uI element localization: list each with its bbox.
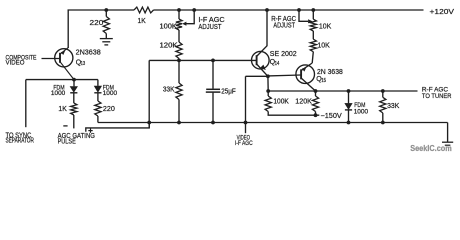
transistor Q13 2N3638 xyxy=(55,49,73,67)
resistor 33K xyxy=(176,83,182,100)
resistor 220 (top) xyxy=(103,17,109,34)
wire xyxy=(312,31,314,39)
wire 220 to bus xyxy=(97,116,99,123)
ground (bottom right) xyxy=(442,141,453,143)
potentiometer 10K (R-F AGC adjust) xyxy=(310,19,316,31)
transistor Q15 2N3638 xyxy=(296,65,315,84)
wire to Q15 base xyxy=(268,74,301,77)
Q15 emitter arrow (PNP) xyxy=(302,67,307,71)
junction bus/25uF xyxy=(211,121,215,125)
wire xyxy=(267,91,269,96)
wire xyxy=(97,80,99,86)
Q15 collector lead xyxy=(301,78,315,91)
junction base line/120K-33K xyxy=(177,59,181,63)
wire emitter node down to RF rail xyxy=(267,76,269,91)
wire xyxy=(73,93,75,103)
wire wiper to rail xyxy=(186,10,194,24)
wire xyxy=(315,91,317,96)
wire R-F AGC rail xyxy=(268,90,417,92)
junction RF rail/120K xyxy=(314,89,318,93)
wire to sync separator xyxy=(25,80,27,128)
wire xyxy=(178,10,180,19)
svg-text:I-F AGC: I-F AGC xyxy=(235,140,253,147)
resistor 1K (pulse) xyxy=(71,103,77,115)
diode D2 FDM 1000 xyxy=(94,86,101,92)
junction RF rail/100K xyxy=(266,89,270,93)
svg-text:120K: 120K xyxy=(295,99,312,106)
junction rail/220 xyxy=(104,8,108,12)
wire xyxy=(348,110,350,123)
wire xyxy=(312,10,314,19)
Q13 collector lead xyxy=(60,62,74,80)
junction bus/33K right xyxy=(381,121,385,125)
Q14 emitter lead xyxy=(257,64,268,76)
diode D1 FDM 1000 xyxy=(70,87,77,93)
wire xyxy=(348,91,350,103)
svg-text:SE 2002: SE 2002 xyxy=(270,51,297,58)
wire xyxy=(105,34,107,39)
svg-text:SEPARATOR: SEPARATOR xyxy=(6,138,34,145)
node plus terminal of gating pulse xyxy=(88,130,92,132)
svg-text:−150V: −150V xyxy=(321,113,343,120)
wire 1K to pulse minus xyxy=(73,115,75,128)
wire gating pulse + to bus xyxy=(86,123,149,132)
junction bus/33K xyxy=(177,121,181,125)
wire base network vertical xyxy=(148,60,150,128)
svg-text:14: 14 xyxy=(275,61,280,67)
junction bus/D3 xyxy=(347,121,351,125)
svg-text:1000: 1000 xyxy=(354,109,369,116)
junction RF rail/D3 xyxy=(347,89,351,93)
svg-text:100K: 100K xyxy=(273,99,289,106)
wire top rail left segment xyxy=(68,9,135,11)
wire to SE2002 base xyxy=(149,59,256,61)
junction collector/diode D1 xyxy=(72,78,76,82)
svg-text:1000: 1000 xyxy=(51,90,66,97)
wire wiper to rail xyxy=(299,10,308,21)
svg-text:TO TUNER: TO TUNER xyxy=(422,93,452,100)
wire Q14 collector to rail xyxy=(266,10,268,47)
Q14 collector lead xyxy=(257,46,267,57)
junction rail/wiper RF xyxy=(297,8,301,12)
resistor 100K xyxy=(265,96,271,112)
wire top rail right segment xyxy=(154,9,424,11)
wire xyxy=(73,80,75,87)
svg-text:SeekIC.com: SeekIC.com xyxy=(410,143,452,153)
diode D3 FDM 1000 xyxy=(345,103,352,109)
wire emitter node left xyxy=(246,75,268,77)
resistor 10K xyxy=(310,39,316,52)
Q13 emitter arrow (PNP) xyxy=(61,51,65,55)
wire cap to bus xyxy=(212,93,214,123)
wire to -150V xyxy=(268,112,319,116)
wire composite video to base of Q13 xyxy=(42,58,60,60)
svg-text:120K: 120K xyxy=(160,43,178,50)
svg-text:100K: 100K xyxy=(160,23,178,30)
node minus terminal xyxy=(63,125,67,127)
Q15 emitter lead up xyxy=(301,63,312,71)
svg-text:13: 13 xyxy=(81,61,86,67)
junction rail/wiper xyxy=(192,8,196,12)
svg-text:I-F AGC: I-F AGC xyxy=(198,17,224,24)
svg-text:1K: 1K xyxy=(138,18,147,25)
wire 10K to Q15 xyxy=(312,52,313,63)
junction base line/25uF xyxy=(211,59,215,63)
svg-text:220: 220 xyxy=(103,106,115,113)
resistor 120K right xyxy=(312,96,318,112)
junction RF rail/33K xyxy=(381,89,385,93)
wire xyxy=(178,59,180,84)
svg-text:ADJUST: ADJUST xyxy=(198,24,222,31)
wire xyxy=(382,91,384,97)
wire xyxy=(105,10,107,17)
wire bottom AGC bus xyxy=(98,122,448,124)
junction bus/base network xyxy=(147,121,151,125)
svg-text:10K: 10K xyxy=(319,23,332,30)
wire xyxy=(212,60,214,88)
junction bus/video IF AGC tap xyxy=(244,121,248,125)
resistor 120K xyxy=(176,42,182,59)
svg-text:ADJUST: ADJUST xyxy=(273,23,295,30)
wire bus to ground xyxy=(447,123,449,142)
resistor 1K (series in +120V rail) xyxy=(134,7,154,13)
svg-text:15: 15 xyxy=(321,78,326,84)
ground (below 220) xyxy=(100,38,113,40)
svg-text:33K: 33K xyxy=(163,86,175,93)
svg-text:10K: 10K xyxy=(317,43,330,50)
Q14 emitter arrow (NPN) xyxy=(260,65,266,71)
junction Q14 emitter node xyxy=(266,74,270,78)
wire video I-F AGC tap xyxy=(245,76,247,133)
svg-text:1000: 1000 xyxy=(103,90,118,97)
resistor 220 (pulse) xyxy=(95,101,101,116)
wire xyxy=(178,30,180,42)
junction rail/100K pot xyxy=(177,8,181,12)
junction rail/Q14 xyxy=(265,8,269,12)
wire xyxy=(315,112,317,116)
wire xyxy=(97,93,99,101)
wiper arrow 100K pot xyxy=(182,22,186,26)
wire Q13 emitter to rail xyxy=(67,10,69,48)
svg-text:1K: 1K xyxy=(58,106,67,113)
resistor 33K right xyxy=(380,97,386,113)
svg-text:+120V: +120V xyxy=(430,9,455,16)
junction rail/10K pot xyxy=(311,8,315,12)
capacitor 25uF xyxy=(206,88,220,90)
transistor U2 SE 2002 Q14 xyxy=(251,51,269,69)
svg-text:33K: 33K xyxy=(387,103,400,110)
wiper arrow 10K pot xyxy=(308,19,312,23)
svg-text:220: 220 xyxy=(90,20,104,27)
potentiometer 100K (I-F AGC adjust) xyxy=(176,19,182,30)
wire 33K to bus xyxy=(178,100,180,123)
wire Q13 collector node xyxy=(26,79,98,81)
svg-text:PULSE: PULSE xyxy=(58,139,76,146)
svg-text:25μF: 25μF xyxy=(221,88,236,95)
svg-text:2N3638: 2N3638 xyxy=(76,49,101,56)
junction -150V line xyxy=(314,113,318,117)
wire xyxy=(382,113,384,123)
svg-text:VIDEO: VIDEO xyxy=(6,60,25,67)
